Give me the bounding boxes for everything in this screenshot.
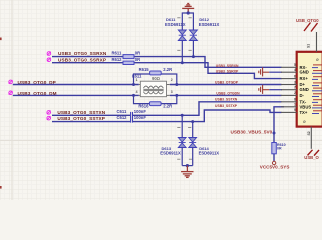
svg-text:R616: R616 [138,104,149,109]
wire SSTXN right [133,102,282,116]
wire GND pin4 [269,71,282,73]
shield pin bottom [310,127,312,149]
resistor R610 [272,143,277,154]
svg-text:USB3_SSRXN: USB3_SSRXN [216,64,239,68]
svg-text:G: G [316,58,320,61]
svg-text:USB_O: USB_O [304,155,319,160]
svg-text:0R: 0R [135,57,140,62]
svg-text:USB3_OTG0_SSRXN: USB3_OTG0_SSRXN [58,51,107,56]
svg-text:ESD6911X: ESD6911X [165,22,186,27]
wire DM right [170,94,282,96]
resistor R616 [149,102,161,106]
svg-text:VCC5V0_SYS: VCC5V0_SYS [260,165,290,170]
wire below R610 [273,154,275,162]
svg-text:C611: C611 [117,109,127,114]
port USB3_OTG0_DP [9,80,13,84]
svg-text:2.2R: 2.2R [163,67,172,72]
port USB3_OTG0_SSRXP [47,58,51,62]
svg-text:0R: 0R [135,51,140,56]
svg-text:USB3_OTG0_SSTXN: USB3_OTG0_SSTXN [57,110,105,115]
shield pin top [316,32,318,52]
svg-text:2: 2 [294,91,296,95]
svg-text:0R: 0R [277,147,282,151]
wire SSRXP right [134,63,282,79]
pin 4 GND [281,71,297,73]
top winding [143,86,163,88]
connector internal contacts right [312,65,322,114]
svg-text:R611: R611 [112,51,122,56]
svg-text:2: 2 [171,78,173,82]
junction dots bottom [181,114,184,117]
pin stubs [139,84,141,86]
bottom winding [143,92,163,94]
svg-text:USB3_SSTXN: USB3_SSTXN [215,98,238,102]
wire SSTXN left [52,114,130,116]
power port VCC5V0_SYS [272,161,275,164]
pin 7 GND [281,89,297,91]
svg-text:100nF: 100nF [134,109,147,114]
wire SSTXP right [133,110,282,122]
ground (top, earth) [182,4,194,14]
wire R615 branch [134,74,150,85]
svg-text:USB_OTG0: USB_OTG0 [296,18,319,23]
junction dots middle [132,83,135,86]
diode D612 (ESD) [189,17,220,56]
svg-text:6: 6 [294,74,296,78]
pin 3 D+ [281,84,297,86]
wire SSRXN left [52,56,123,58]
svg-text:1: 1 [136,78,138,82]
diode D611 (ESD) [165,17,186,63]
no-connect slashes bottom [308,150,320,156]
diode D614 (ESD) [188,122,219,166]
wire DP right [170,84,282,86]
resistor R615 [150,71,162,75]
svg-text:5: 5 [294,63,296,67]
svg-text:RX+: RX+ [300,76,309,81]
wire DM left [13,94,139,96]
svg-text:2.2R: 2.2R [163,104,172,109]
svg-text:9: 9 [294,108,296,112]
port USB3_OTG0_SSRXN [47,52,51,56]
resistor R612 [123,61,134,64]
connector U611 USB3 receptacle [281,52,322,127]
sheet border mark bottom [0,186,2,189]
svg-text:1: 1 [294,103,296,107]
pin 6 RX+ [281,78,297,80]
svg-text:G: G [303,120,307,123]
svg-text:GND: GND [300,87,309,92]
ground (sideways at GND pin 4) [259,67,269,76]
port USB3_OTG0_SSTXP [47,116,51,120]
pin 2 D- [281,94,297,96]
pin 5 RX- [281,66,297,68]
diode D613 (ESD) [160,115,186,165]
svg-text:USB3_OTGDP: USB3_OTGDP [215,80,239,84]
wire bottom diode bus [182,165,193,167]
junction dots top [187,11,190,14]
svg-text:TX+: TX+ [300,110,308,115]
wire DP left [13,84,139,86]
svg-text:USB3_SSRXP: USB3_SSRXP [216,69,239,73]
svg-text:USB3_OTGDN: USB3_OTGDN [216,92,240,96]
pin 8 TX- [281,101,297,103]
svg-text:3: 3 [294,80,296,84]
svg-text:S2: S2 [307,131,311,135]
port USB3_OTG0_DM [9,91,13,95]
svg-text:7: 7 [294,86,296,90]
core lines [143,88,163,90]
svg-text:GND: GND [300,70,309,75]
resistor R611 [123,55,134,59]
pin 9 TX+ [281,111,297,113]
svg-text:VBUS: VBUS [300,104,312,109]
svg-text:R612: R612 [112,57,123,62]
no-connect slashes top [304,23,318,32]
svg-text:3: 3 [171,90,173,94]
svg-text:ESD6911X: ESD6911X [199,150,220,155]
svg-text:8: 8 [294,98,296,102]
wire SSRXN right [134,57,282,68]
ground (sideways at GND pin 7) [259,85,269,94]
wire top diode bus [182,13,193,30]
wire R616 branch [134,95,150,103]
wire VBUS [274,107,284,143]
svg-text:ESD6911X: ESD6911X [160,150,181,155]
svg-text:USB3_OTG0_SSRXP: USB3_OTG0_SSRXP [58,58,106,63]
svg-text:100nF: 100nF [134,115,147,120]
svg-text:USB30_VBUS_5V0: USB30_VBUS_5V0 [231,130,273,135]
svg-text:D-: D- [300,93,305,98]
port USB3_OTG0_SSTXN [47,111,51,115]
pin 1 VBUS [281,106,297,108]
sheet border mark top [0,38,2,41]
svg-text:R615: R615 [139,67,150,72]
svg-text:90Ω: 90Ω [152,76,161,81]
svg-text:S1: S1 [307,44,311,48]
capacitor C611 [131,112,133,123]
svg-text:USB3_SSTXP: USB3_SSTXP [215,104,238,108]
wire SSRXP left [52,62,123,64]
wire GND pin7 [269,89,282,91]
common mode choke L611 [132,73,173,96]
svg-text:C612: C612 [117,115,128,120]
svg-text:ESD6911X: ESD6911X [199,22,220,27]
svg-text:4: 4 [136,90,138,94]
svg-text:USB3_OTG0_SSTXP: USB3_OTG0_SSTXP [57,116,105,121]
svg-text:4: 4 [294,68,296,72]
junction dot VBUS [273,132,276,135]
ground (bottom, earth) [181,166,193,178]
wire SSTXP left [52,121,130,123]
